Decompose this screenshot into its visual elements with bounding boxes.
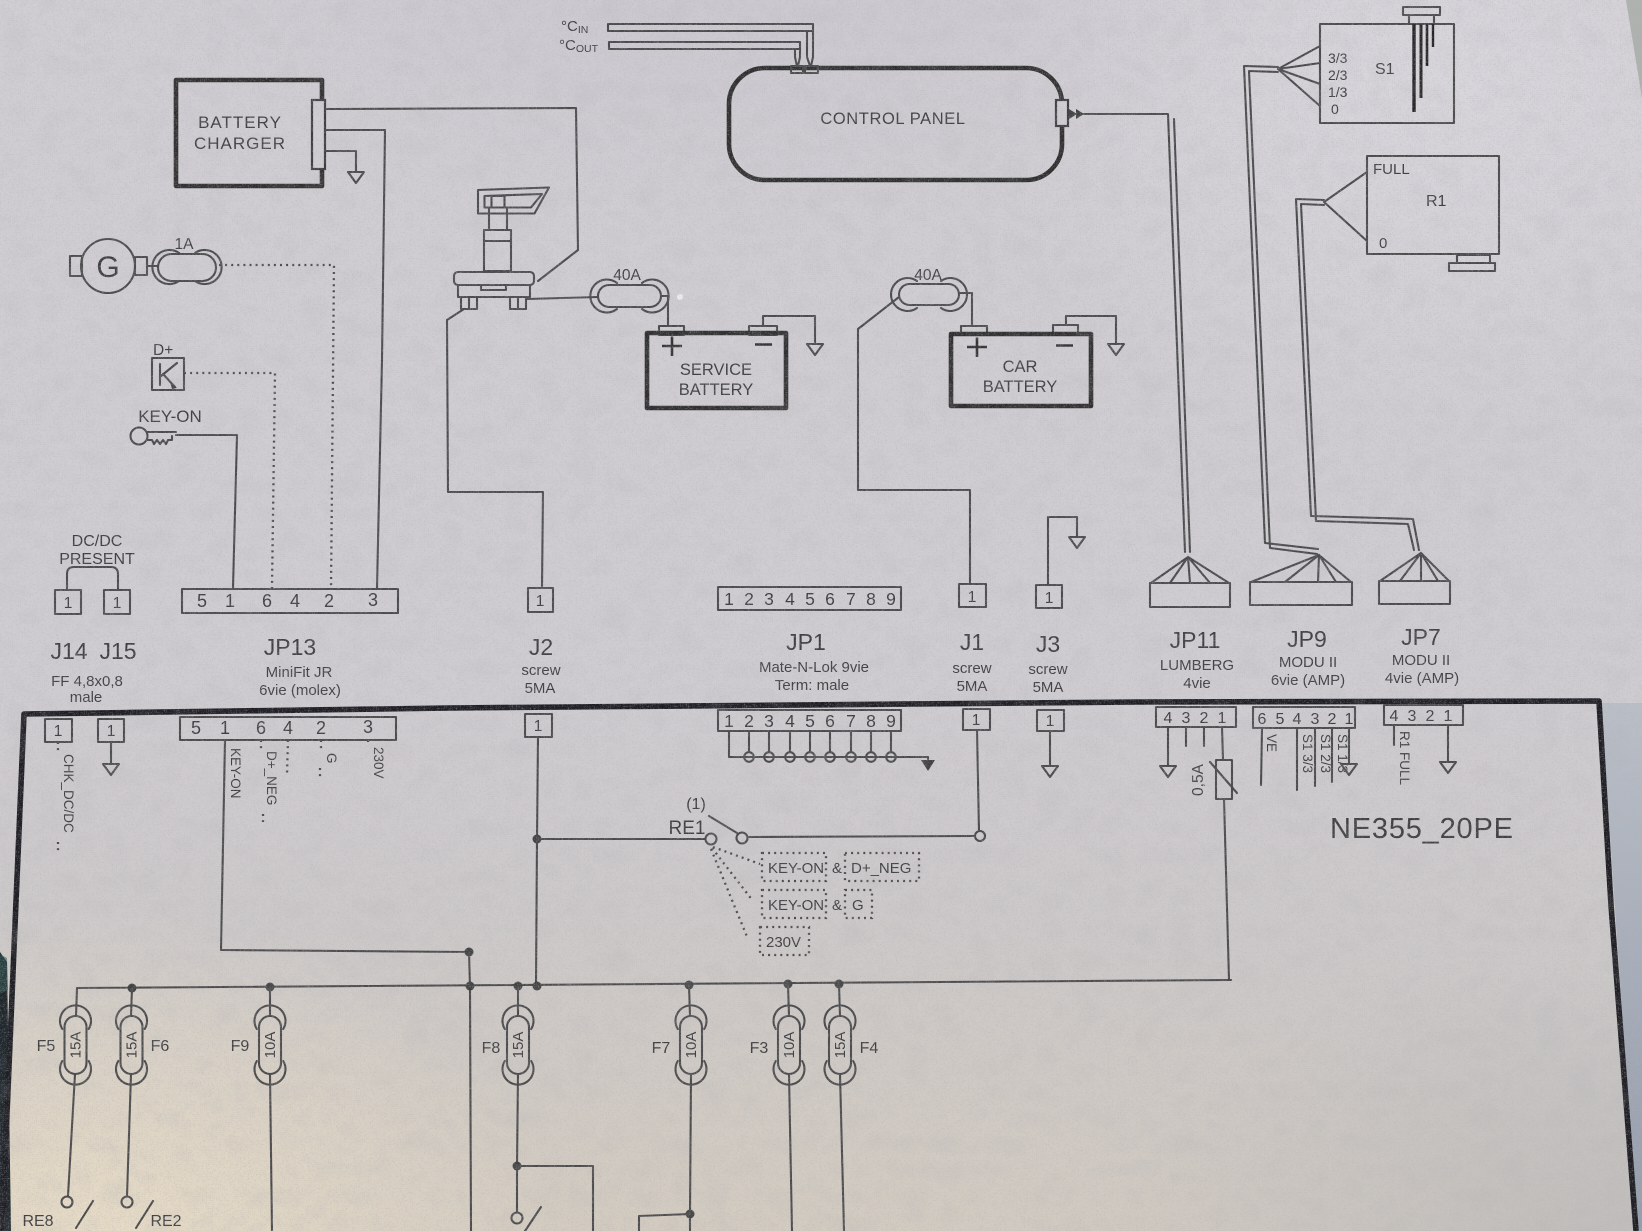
fuse F5	[37, 988, 91, 1196]
net D+_NEG label	[261, 740, 279, 822]
wire 1A to JP13 pin 2 (dotted)	[219, 265, 334, 589]
wire D+ to JP13 pin 6 (dotted)	[184, 373, 275, 588]
fuse F6	[116, 988, 169, 1196]
connector J3 (inner)	[1037, 710, 1064, 777]
ground service battery	[763, 316, 823, 355]
fuse 0,5A	[1190, 727, 1237, 980]
connector JP7 (inner)	[1384, 705, 1463, 786]
connector JP7 (outer)	[1379, 553, 1459, 687]
relay contact RE1	[537, 796, 985, 845]
connector J14 J15 (outer)	[50, 533, 136, 706]
PCB NE355_20PE border	[2, 701, 1636, 1231]
fuse F3	[750, 984, 805, 1231]
battery charger	[176, 80, 325, 186]
connector J1 (outer)	[952, 584, 991, 695]
temperature probe °C IN	[561, 18, 818, 73]
fuse F8	[482, 986, 593, 1231]
net G label	[320, 740, 339, 780]
wire battery charger 230V to JP13 pin 3	[325, 130, 385, 588]
level sensor S1	[1320, 7, 1454, 123]
wire fuse 40A to J1	[858, 297, 970, 584]
net 230V label	[368, 740, 386, 779]
relay contact RE8	[22, 1197, 93, 1231]
connector JP1 (outer)	[718, 587, 901, 694]
connector J2 (outer)	[521, 588, 560, 697]
connector J3 (outer)	[1028, 585, 1067, 696]
ground J3 (outer)	[1048, 517, 1085, 585]
car battery	[951, 325, 1091, 406]
connector JP13 (outer)	[182, 589, 398, 699]
connector J2 (inner)	[525, 714, 552, 986]
wire KEY-ON to JP13 pin 1	[176, 435, 237, 588]
connector JP9 (inner)	[1253, 707, 1357, 790]
wire switch to J2	[447, 309, 543, 588]
battery disconnect switch	[454, 188, 549, 310]
supply bus	[77, 980, 1231, 993]
wire fuse 40A to car battery +	[959, 293, 972, 326]
net CHK_DC/DC label	[58, 742, 76, 852]
wire switch to fuse 40A	[527, 297, 598, 299]
connector JP11 (outer)	[1150, 557, 1234, 692]
key switch KEY-ON	[131, 407, 202, 445]
net KEY-ON (JP13 pin 1 to bus)	[221, 740, 474, 1231]
service battery	[647, 326, 786, 408]
connector JP11 (inner)	[1156, 707, 1236, 777]
D+ signal	[152, 342, 184, 390]
generator G	[70, 239, 158, 293]
connector JP1 (inner)	[718, 710, 935, 771]
control panel	[729, 68, 1062, 180]
cable S1 to JP9	[1244, 46, 1320, 554]
fuse F7	[639, 985, 707, 1231]
fuse 1A	[152, 236, 221, 284]
wire fuse 40A to service battery +	[661, 296, 668, 326]
fuse 40A (car)	[891, 267, 967, 311]
cable R1 to JP7	[1296, 172, 1419, 550]
photo speck	[677, 294, 683, 300]
connector J1 (inner)	[963, 709, 990, 831]
ground battery charger	[325, 151, 364, 183]
fuse F9	[231, 987, 286, 1231]
ground J15 (inner)	[103, 742, 119, 775]
tank level resistor R1	[1367, 156, 1499, 271]
connector JP13 (inner)	[180, 717, 396, 740]
ground car battery	[1066, 316, 1124, 355]
wire battery charger to battery switch	[325, 108, 578, 281]
cable control panel to JP11	[1056, 100, 1190, 552]
connector J14 J15 (inner)	[45, 719, 124, 742]
connector JP9 (outer)	[1250, 555, 1352, 689]
net pin4 stub (dotted)	[287, 740, 288, 774]
relay contact RE2	[122, 1197, 182, 1231]
fuse F4	[825, 984, 879, 1231]
temperature probe °C OUT	[559, 37, 803, 73]
relay RE1 condition labels (dotted)	[711, 847, 919, 955]
fuse 40A (service)	[590, 267, 668, 313]
